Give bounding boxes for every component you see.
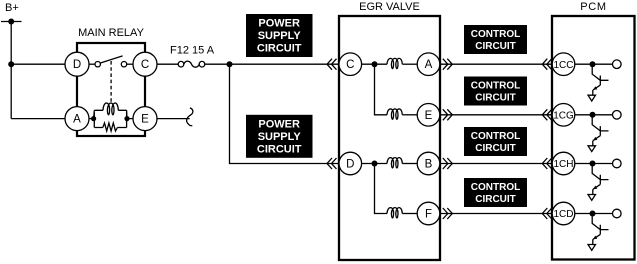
EGR pin F [417, 202, 440, 225]
PCM pin 1CG [552, 104, 575, 127]
svg-text:CONTROL: CONTROL [471, 29, 520, 40]
wire B+ rail vertical [10, 22, 12, 119]
svg-text:D: D [73, 59, 81, 71]
svg-text:CIRCUIT: CIRCUIT [475, 194, 516, 205]
svg-text:CONTROL: CONTROL [471, 182, 520, 193]
EGR VALVE box [339, 16, 440, 260]
wire 1CH to transistor node [575, 163, 613, 165]
wire break continuation squiggle [187, 108, 193, 126]
svg-text:SUPPLY: SUPPLY [258, 30, 302, 42]
node junction B+ to relay D [8, 61, 14, 67]
wire EGR branch down to row2 [375, 64, 388, 115]
svg-text:CONTROL: CONTROL [471, 131, 520, 142]
svg-text:A: A [73, 114, 81, 126]
wire A to coil node [89, 118, 94, 120]
wire coil1 to A [402, 63, 417, 65]
wire EGR branch down to row4 [375, 164, 388, 214]
wire relay C to fuse [157, 63, 179, 65]
transistor Q4 [592, 214, 608, 245]
svg-text:E: E [425, 110, 433, 122]
transistor Q3 [592, 164, 608, 195]
svg-text:E: E [141, 114, 149, 126]
svg-text:EGR VALVE: EGR VALVE [359, 1, 420, 13]
connector chevrons into EGR row1 [327, 59, 337, 70]
node main junction after fuse [227, 61, 233, 67]
connector chevrons into PCM row3 [542, 158, 552, 169]
svg-text:1CH: 1CH [553, 159, 573, 170]
svg-text:CIRCUIT: CIRCUIT [475, 41, 516, 52]
control circuit block 4 [464, 178, 527, 207]
relay switch blade [100, 56, 122, 63]
svg-text:F12 15 A: F12 15 A [170, 45, 215, 57]
connector chevrons into PCM row2 [542, 109, 552, 120]
node PCM row2 [590, 112, 596, 118]
node EGR junction 2 [372, 161, 378, 167]
PCM box [552, 16, 635, 260]
PCM terminal circle row1 [613, 60, 622, 69]
wire to relay pin D [11, 63, 65, 65]
node EGR junction 1 [372, 61, 378, 67]
svg-text:A: A [425, 59, 433, 71]
svg-text:PCM: PCM [580, 1, 607, 13]
wire to relay pin A [11, 118, 65, 120]
connector chevrons out of EGR row3 [443, 158, 453, 169]
svg-text:CIRCUIT: CIRCUIT [475, 143, 516, 154]
connector chevrons into EGR row3 [327, 158, 337, 169]
wire coil4 to F [402, 213, 417, 215]
wire relay E stub [157, 118, 190, 120]
wire A to PCM 1CC [440, 63, 552, 65]
transistor Q1 [592, 64, 608, 95]
svg-text:SUPPLY: SUPPLY [258, 131, 302, 143]
power supply circuit block 1 [246, 14, 313, 57]
wire switch to C [127, 63, 134, 65]
connector chevrons into PCM row1 [542, 59, 552, 70]
connector chevrons out of EGR row2 [443, 109, 453, 120]
PCM terminal circle row3 [613, 159, 622, 168]
wire relay coil branch frame [94, 110, 127, 127]
svg-text:CIRCUIT: CIRCUIT [257, 43, 302, 55]
svg-text:F: F [425, 209, 432, 221]
relay coil winding [103, 103, 118, 115]
relay pin E [133, 107, 157, 131]
EGR pin A [417, 53, 440, 76]
battery terminal B+ tap [1, 19, 22, 25]
relay resistor zigzag [103, 123, 118, 131]
wire 1CD to transistor node [575, 213, 613, 215]
relay switch contact left [95, 61, 100, 66]
PCM pin 1CH [552, 152, 575, 175]
wire B to PCM 1CH [440, 163, 552, 165]
PCM terminal circle row4 [613, 209, 622, 218]
svg-text:1CC: 1CC [553, 60, 573, 71]
node PCM row4 [590, 211, 596, 217]
ground arrow row3 [588, 195, 596, 201]
node PCM row1 [590, 61, 596, 67]
svg-text:CIRCUIT: CIRCUIT [475, 93, 516, 104]
control circuit block 2 [464, 77, 527, 106]
wire E to PCM 1CG [440, 114, 552, 116]
wire D to node [362, 163, 387, 165]
wire coil3 to B [402, 163, 417, 165]
wire fuse to main node [205, 63, 340, 65]
relay MAIN RELAY box [77, 43, 145, 136]
svg-text:1CG: 1CG [553, 110, 574, 121]
wire coil2 to E [402, 114, 417, 116]
control circuit block 1 [464, 25, 527, 54]
EGR coil winding 1 [387, 58, 402, 68]
EGR pin C [339, 53, 362, 76]
svg-text:1CD: 1CD [553, 209, 573, 220]
svg-text:B+: B+ [5, 2, 19, 14]
EGR coil winding 2 [387, 109, 402, 119]
node PCM row3 [590, 161, 596, 167]
EGR pin B [417, 152, 440, 175]
transistor Q2 [592, 115, 608, 146]
wire C to node [362, 63, 387, 65]
svg-text:POWER: POWER [258, 18, 300, 30]
relay pin A [65, 107, 89, 131]
fuse F12 15 A symbol [178, 61, 205, 67]
svg-text:D: D [346, 159, 354, 171]
node relay coil left [91, 116, 96, 121]
relay pin C [133, 52, 157, 76]
PCM pin 1CD [552, 202, 575, 225]
wire 1CG to transistor node [575, 114, 613, 116]
relay actuator dashed link [110, 61, 112, 103]
node relay coil right [124, 116, 129, 121]
control circuit block 3 [464, 127, 527, 156]
svg-text:CONTROL: CONTROL [471, 81, 520, 92]
EGR pin E [417, 104, 440, 127]
svg-text:B: B [425, 159, 433, 171]
connector chevrons out of EGR row4 [443, 208, 453, 219]
EGR pin D [339, 152, 362, 175]
PCM pin 1CC [552, 53, 575, 76]
wire main node down to row 3 [230, 64, 341, 163]
ground arrow row2 [588, 146, 596, 152]
svg-text:C: C [346, 59, 354, 71]
PCM terminal circle row2 [613, 111, 622, 120]
wire coil node to E [127, 118, 133, 120]
EGR coil winding 4 [387, 208, 402, 218]
relay switch contact right [121, 61, 126, 66]
wire 1CC to transistor node [575, 63, 613, 65]
ground arrow row1 [588, 95, 596, 101]
wire D to switch [89, 63, 95, 65]
svg-text:POWER: POWER [258, 118, 300, 130]
connector chevrons out of EGR row1 [443, 59, 453, 70]
EGR coil winding 3 [387, 158, 402, 168]
svg-text:C: C [141, 59, 149, 71]
ground arrow row4 [588, 245, 596, 251]
power supply circuit block 2 [246, 115, 313, 158]
svg-text:CIRCUIT: CIRCUIT [257, 143, 302, 155]
connector chevrons into PCM row4 [542, 208, 552, 219]
svg-text:MAIN RELAY: MAIN RELAY [78, 27, 144, 39]
relay pin D [65, 52, 89, 76]
wire F to PCM 1CD [440, 213, 552, 215]
